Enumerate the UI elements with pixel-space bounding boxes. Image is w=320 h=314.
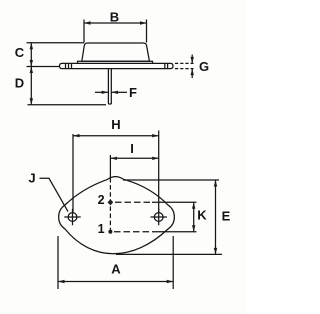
lead (side view) bbox=[108, 69, 111, 104]
extension line H left (to left hole) bbox=[72, 134, 74, 213]
pin 1 dot bbox=[108, 230, 112, 234]
can skirt bbox=[78, 61, 153, 63]
dimension G upper line bbox=[191, 55, 193, 64]
arrow H left bbox=[73, 134, 80, 137]
arrow C top (up) bbox=[30, 43, 33, 50]
extension line E bottom bbox=[116, 253, 222, 255]
dimension E line bbox=[215, 180, 217, 254]
svg-text:1: 1 bbox=[98, 222, 105, 236]
arrow K bottom (down) bbox=[192, 225, 195, 232]
can body bbox=[82, 43, 150, 61]
arrow G upper (down) bbox=[191, 57, 194, 64]
svg-text:A: A bbox=[111, 262, 121, 277]
extension line seating plane bbox=[27, 66, 60, 68]
extension line H/I right (to right hole) bbox=[158, 131, 160, 213]
flange hole edge left bbox=[66, 63, 72, 68]
extension line lead end bbox=[28, 104, 107, 106]
extension line A left bbox=[57, 236, 59, 289]
dimension K line bbox=[193, 202, 195, 232]
arrow E bottom (down) bbox=[214, 248, 217, 255]
extension line A right bbox=[172, 236, 174, 289]
arrow G lower (up) bbox=[191, 69, 194, 76]
svg-text:C: C bbox=[15, 45, 25, 60]
svg-text:2: 2 bbox=[98, 193, 105, 207]
extension line B left bbox=[83, 20, 85, 43]
arrow D top (up) bbox=[30, 67, 33, 74]
svg-text:J: J bbox=[28, 171, 35, 186]
dimension C/D vertical line bbox=[30, 43, 32, 105]
svg-text:I: I bbox=[130, 141, 134, 156]
dimension G lower line bbox=[191, 69, 193, 78]
extension line K top (from pin 2) bbox=[115, 201, 152, 203]
svg-text:D: D bbox=[15, 76, 24, 91]
extension dashes G top bbox=[175, 62, 194, 64]
dimension I line bbox=[110, 157, 158, 159]
svg-text:B: B bbox=[110, 10, 119, 25]
mounting hole left bbox=[68, 213, 77, 222]
arrow A left bbox=[58, 280, 65, 283]
pin 2 dot bbox=[108, 199, 114, 205]
mounting hole right bbox=[154, 213, 163, 222]
arrow F right (left-pointing) bbox=[112, 91, 119, 94]
leader J bbox=[40, 178, 69, 211]
svg-text:K: K bbox=[197, 208, 207, 223]
center line through pins (dashed) bbox=[109, 178, 111, 232]
arrow E top (up) bbox=[214, 180, 217, 187]
extension line B right bbox=[146, 20, 148, 43]
extension line E top bbox=[123, 179, 219, 181]
crosshair left hole bbox=[64, 209, 80, 225]
dimension A line bbox=[58, 281, 173, 283]
arrow I right bbox=[152, 157, 159, 160]
dimension H line bbox=[73, 135, 159, 137]
svg-text:G: G bbox=[199, 59, 209, 74]
crosshair right hole bbox=[151, 209, 167, 225]
dimension B arrow left bbox=[84, 21, 91, 24]
dimension F right line bbox=[112, 91, 128, 93]
svg-text:F: F bbox=[129, 85, 137, 100]
extension line K bottom (from pin 1) bbox=[114, 231, 152, 233]
arrow F left (right-pointing) bbox=[102, 91, 109, 94]
arrow D bottom (down) bbox=[30, 98, 33, 105]
arrow K top (up) bbox=[192, 202, 195, 209]
svg-text:E: E bbox=[222, 209, 231, 224]
dimension F left line bbox=[95, 91, 108, 93]
dimension B line bbox=[84, 22, 147, 24]
extension line can top bbox=[27, 42, 85, 44]
arrow C bottom (down) bbox=[30, 60, 33, 67]
arrow A right bbox=[167, 280, 174, 283]
flange side view bbox=[60, 63, 174, 68]
extension dashes G bottom bbox=[175, 68, 194, 70]
svg-text:H: H bbox=[111, 117, 120, 132]
arrow I left bbox=[110, 157, 117, 160]
flange hole edge right bbox=[165, 63, 168, 68]
dimension B arrow right bbox=[140, 21, 147, 24]
arrow H right bbox=[152, 134, 159, 137]
flange outline (bottom view) bbox=[59, 177, 175, 254]
extension line I left (solid part) bbox=[109, 155, 111, 178]
